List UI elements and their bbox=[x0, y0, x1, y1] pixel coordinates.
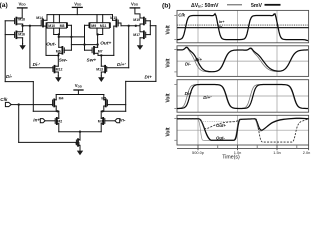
svg-text:Di-: Di- bbox=[185, 62, 191, 67]
gridlines sub2 bbox=[197, 46, 199, 77]
transistor M19 bbox=[140, 18, 150, 31]
clk gate rail bbox=[19, 104, 126, 106]
svg-text:ΔVin: 50mV: ΔVin: 50mV bbox=[191, 3, 219, 9]
wire Di+ right route bbox=[126, 26, 156, 112]
gridlines sub1 bbox=[197, 10, 199, 42]
In- input terminal bbox=[105, 119, 120, 123]
svg-text:M15: M15 bbox=[110, 16, 117, 20]
svg-text:Di+’: Di+’ bbox=[203, 95, 212, 100]
svg-text:Out-: Out- bbox=[46, 41, 56, 47]
svg-text:VDD: VDD bbox=[74, 1, 82, 6]
svg-text:M10: M10 bbox=[48, 24, 55, 28]
junction node Out- at cross wire A bbox=[58, 36, 60, 38]
common source wire bbox=[59, 132, 101, 141]
gridlines sub4 bbox=[197, 115, 199, 145]
node Out+ vertical bbox=[97, 35, 99, 48]
svg-text:Di+: Di+ bbox=[195, 57, 202, 62]
waveform Out 50mV thin solid bbox=[177, 119, 309, 141]
svg-text:VDD: VDD bbox=[131, 1, 139, 6]
transistor M15 bbox=[113, 15, 122, 56]
transistor M7 bbox=[85, 47, 99, 56]
svg-text:M7: M7 bbox=[98, 49, 103, 53]
transistor M14 bbox=[41, 15, 47, 56]
svg-text:M8: M8 bbox=[60, 24, 65, 28]
svg-text:VDD: VDD bbox=[19, 1, 27, 6]
waveform Out- 5mV thick solid bbox=[177, 118, 309, 140]
svg-text:M3: M3 bbox=[98, 120, 103, 124]
svg-text:M5: M5 bbox=[101, 96, 106, 100]
wire Clk to M1 gate bbox=[19, 105, 77, 143]
waveform Di' 50mV gray bbox=[177, 85, 308, 109]
transistor M4 bbox=[53, 95, 57, 112]
wire Di+ node first stage bbox=[101, 110, 126, 112]
wire M15 drain to Sw+ bbox=[98, 54, 114, 56]
svg-text:M12: M12 bbox=[56, 68, 63, 72]
svg-text:500.0p: 500.0p bbox=[192, 150, 204, 155]
plot gridlines bbox=[177, 10, 309, 145]
svg-text:M16: M16 bbox=[18, 32, 25, 36]
junction cross wire A midpoint bbox=[70, 36, 72, 38]
frame sub4 bbox=[177, 115, 309, 145]
junction node Di+ first stage bbox=[101, 110, 103, 112]
y axis ticks bbox=[174, 16, 177, 141]
svg-text:Sw+: Sw+ bbox=[87, 58, 97, 64]
svg-text:Volt: Volt bbox=[165, 93, 171, 102]
junction node Out+ at inverter input bbox=[135, 25, 137, 27]
waveform Di' 5mV black bbox=[177, 85, 308, 109]
svg-text:In+: In+ bbox=[33, 117, 40, 122]
junction node Out- at inverter input bbox=[21, 25, 23, 27]
right inverter gate tie bbox=[149, 21, 151, 35]
svg-text:Out+: Out+ bbox=[216, 123, 226, 128]
svg-text:In-: In- bbox=[120, 117, 126, 122]
svg-text:Di-’: Di-’ bbox=[185, 91, 193, 96]
frame sub3 bbox=[177, 80, 309, 113]
svg-text:M2: M2 bbox=[57, 120, 62, 124]
svg-text:VDD: VDD bbox=[75, 83, 83, 88]
junction node Di- first stage bbox=[56, 110, 58, 112]
VDD centre supply bbox=[72, 7, 82, 14]
svg-text:M6: M6 bbox=[56, 49, 61, 53]
wire Di-' bbox=[30, 26, 53, 68]
VDD right supply bbox=[130, 8, 140, 18]
frame sub2 bbox=[177, 46, 309, 77]
svg-text:Di+: Di+ bbox=[145, 74, 153, 79]
svg-text:In+: In+ bbox=[219, 20, 225, 24]
transistor M2 bbox=[55, 111, 59, 131]
svg-text:Out-: Out- bbox=[216, 136, 225, 141]
waveform clk bbox=[177, 14, 308, 41]
axis ticks bbox=[197, 145, 199, 150]
waveform Di 5mV black bbox=[177, 47, 308, 71]
legend line 5mV bbox=[265, 4, 281, 6]
transistor M3 bbox=[101, 111, 105, 131]
cross-coupled PMOS pair M9 M11 bbox=[89, 15, 110, 35]
In- level bbox=[177, 27, 309, 29]
svg-text:5mV: 5mV bbox=[251, 3, 262, 9]
transistor M6 bbox=[58, 47, 71, 56]
junction Sw- bbox=[57, 54, 59, 56]
transistor M16 bbox=[5, 31, 22, 43]
first stage VDD rail bbox=[56, 94, 104, 96]
svg-text:Volt: Volt bbox=[165, 58, 171, 67]
wire Di+' bbox=[107, 26, 129, 68]
junction clk bbox=[18, 103, 20, 105]
svg-text:Volt: Volt bbox=[165, 127, 171, 136]
junction node Out+ at cross wire B bbox=[96, 43, 98, 45]
svg-text:M9: M9 bbox=[91, 24, 96, 28]
ground below M12 bbox=[55, 76, 61, 82]
svg-text:M18: M18 bbox=[18, 17, 25, 21]
latch VDD rail bbox=[47, 14, 113, 16]
svg-text:1.5n: 1.5n bbox=[273, 150, 281, 155]
svg-text:(b): (b) bbox=[162, 2, 171, 9]
time axis line bbox=[177, 147, 309, 149]
node Out- vertical bbox=[58, 35, 60, 48]
legend bbox=[191, 3, 281, 9]
wire M14 drain to Sw- bbox=[46, 54, 58, 56]
transistor M5 bbox=[104, 95, 108, 112]
svg-text:Out+: Out+ bbox=[100, 40, 111, 46]
wire M15 gate stub bbox=[120, 23, 122, 26]
svg-text:(a): (a) bbox=[0, 2, 8, 9]
In+ dotted level bbox=[177, 24, 309, 26]
junction tail bbox=[79, 131, 81, 133]
waveform Out+ 50mV dotted bbox=[202, 120, 238, 122]
Clk input terminal bbox=[5, 102, 18, 106]
wire Di- left route bbox=[5, 21, 33, 112]
waveform Di 50mV gray bbox=[177, 48, 308, 72]
junction right pair drains bbox=[96, 33, 98, 35]
ground left inverter bbox=[19, 44, 25, 50]
frame sub1 bbox=[177, 10, 309, 42]
svg-text:In-: In- bbox=[219, 25, 224, 29]
waveform Out+ dashed bbox=[177, 119, 309, 142]
transistor M17 bbox=[140, 31, 150, 43]
svg-text:M11: M11 bbox=[100, 24, 107, 28]
wire Di- node first stage bbox=[33, 110, 59, 112]
wire left pair gate to cross bbox=[67, 25, 71, 50]
svg-text:Volt: Volt bbox=[165, 25, 171, 34]
transistor M13 bbox=[101, 55, 106, 75]
svg-text:Di-’: Di-’ bbox=[33, 62, 41, 67]
transistor M1 bbox=[76, 139, 80, 149]
ground below M13 bbox=[98, 76, 104, 82]
svg-text:M13: M13 bbox=[96, 68, 103, 72]
latch cross wire B bbox=[71, 44, 97, 46]
svg-text:Clk: Clk bbox=[178, 13, 185, 18]
svg-text:M19: M19 bbox=[133, 18, 140, 22]
ground right inverter bbox=[137, 44, 143, 50]
svg-text:M14: M14 bbox=[36, 16, 43, 20]
junction Sw+ bbox=[100, 54, 102, 56]
legend line 50mV bbox=[227, 4, 242, 6]
transistor M18 bbox=[5, 18, 22, 31]
svg-text:Sw-: Sw- bbox=[59, 58, 68, 64]
cross-coupled PMOS pair M10 M8 bbox=[46, 15, 67, 35]
schematic text labels bbox=[0, 1, 152, 145]
svg-text:Clk: Clk bbox=[0, 97, 8, 102]
VDD first stage supply bbox=[74, 90, 83, 95]
Volt axis labels bbox=[165, 25, 171, 137]
ground below M1 bbox=[77, 149, 83, 155]
junction node Out+ at Di+' tap bbox=[128, 25, 130, 27]
VDD left supply bbox=[18, 8, 28, 17]
svg-text:Di+’: Di+’ bbox=[117, 62, 126, 67]
svg-text:M4: M4 bbox=[59, 96, 64, 100]
wire inverter output to latch bbox=[23, 25, 42, 27]
svg-text:2.0n: 2.0n bbox=[303, 150, 311, 155]
svg-text:M17: M17 bbox=[133, 33, 140, 37]
time tick labels bbox=[192, 150, 310, 155]
transistor M12 bbox=[53, 55, 58, 75]
gridlines sub3 bbox=[197, 80, 199, 113]
wire right pair gate to cross bbox=[85, 25, 89, 50]
junction left pair drains bbox=[58, 33, 60, 35]
junction node Out- at Di-' tap bbox=[29, 25, 31, 27]
wire latch out+ to right inverter bbox=[121, 25, 140, 27]
In+ input terminal bbox=[40, 119, 55, 123]
svg-text:Time(s): Time(s) bbox=[222, 154, 240, 160]
junction cross wire B midpoint bbox=[83, 43, 85, 45]
svg-text:M1: M1 bbox=[75, 141, 80, 145]
svg-text:Di-: Di- bbox=[6, 74, 13, 79]
latch cross wire A bbox=[59, 36, 85, 38]
